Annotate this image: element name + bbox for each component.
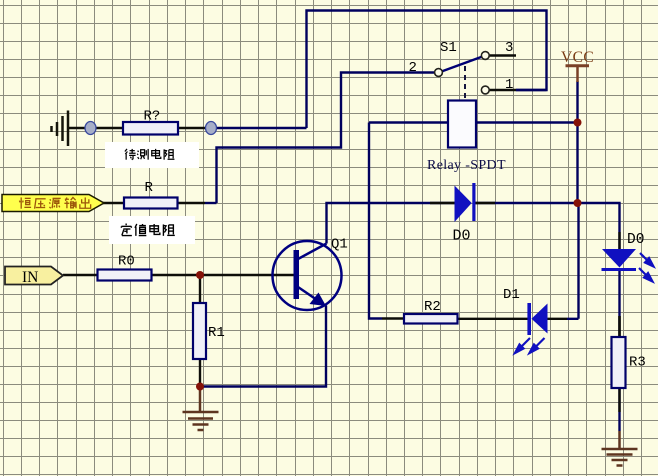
svg-text:Q1: Q1 [331, 237, 348, 253]
svg-text:D0: D0 [453, 228, 471, 245]
svg-text:R2: R2 [424, 299, 441, 315]
svg-text:R0: R0 [118, 254, 135, 270]
svg-text:R3: R3 [629, 355, 646, 371]
svg-text:2: 2 [409, 60, 417, 76]
svg-text:Relay -SPDT: Relay -SPDT [427, 158, 506, 173]
svg-text:D1: D1 [503, 287, 520, 303]
svg-text:1: 1 [505, 77, 513, 93]
svg-text:3: 3 [505, 40, 513, 56]
svg-text:D0: D0 [627, 232, 644, 248]
svg-text:R: R [145, 180, 154, 196]
svg-text:R?: R? [144, 109, 161, 125]
svg-text:VCC: VCC [561, 49, 594, 66]
svg-text:IN: IN [22, 269, 38, 286]
svg-text:S1: S1 [440, 40, 457, 56]
svg-text:R1: R1 [208, 325, 225, 341]
